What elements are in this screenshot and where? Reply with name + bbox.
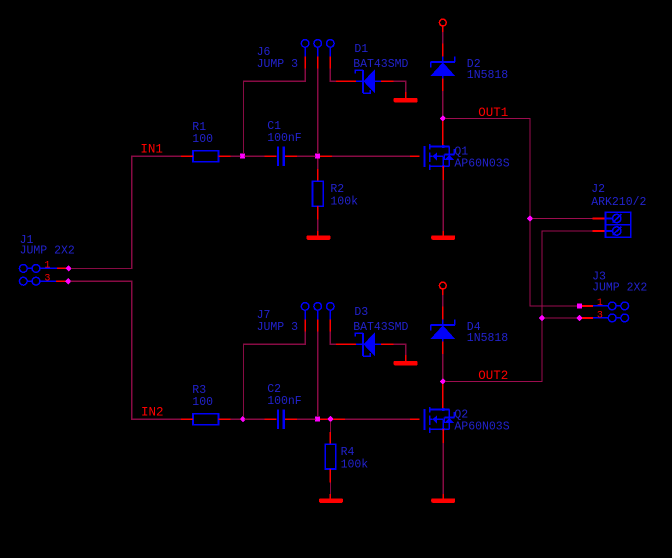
junction J1 pin 3 bbox=[65, 278, 71, 284]
junction node OUT1 bbox=[440, 115, 446, 121]
connector J3 bbox=[608, 302, 628, 322]
svg-text:100: 100 bbox=[192, 133, 213, 146]
pin stub power bbox=[442, 26, 444, 32]
pin stub Q2 gate bbox=[410, 418, 419, 420]
wire Q1 source to ground bbox=[442, 180, 444, 231]
svg-text:3: 3 bbox=[44, 273, 50, 284]
node R3-C2-J7.1 bbox=[240, 416, 246, 422]
wire C2 node to R4 node bbox=[320, 418, 328, 420]
wire C1 to node bbox=[297, 155, 315, 157]
pin stub power bbox=[442, 289, 444, 295]
pin line J7 pin 2 bbox=[317, 310, 319, 319]
svg-text:JUMP 3: JUMP 3 bbox=[257, 321, 299, 334]
wire R4 node right bbox=[333, 418, 345, 420]
svg-text:100nF: 100nF bbox=[267, 132, 302, 145]
connector J6 bbox=[301, 40, 309, 48]
svg-text:100: 100 bbox=[192, 396, 213, 409]
svg-text:J7: J7 bbox=[257, 309, 271, 322]
junction at J3 pin 3 stub bbox=[576, 315, 582, 321]
wire R4 to ground bbox=[329, 483, 331, 494]
svg-text:R4: R4 bbox=[341, 446, 355, 459]
wire D2 to node OUT1 bbox=[442, 91, 444, 116]
pin stub C2 left bbox=[264, 418, 276, 420]
wire gate net bbox=[332, 155, 410, 157]
wire C2 to node bbox=[297, 418, 315, 420]
pin stub D3 cathode bbox=[336, 343, 356, 345]
wire D3 anode to ground bbox=[394, 344, 406, 355]
wire net OUT2 to connectors bbox=[445, 231, 592, 382]
svg-text:1N5818: 1N5818 bbox=[467, 69, 509, 82]
pin line J6 pin 2 bbox=[317, 47, 319, 56]
capacitor C1 bbox=[277, 146, 279, 166]
power supply symbol above D2 bbox=[439, 19, 446, 26]
wire Q2 source to ground bbox=[442, 443, 444, 494]
ground at D1 bbox=[394, 98, 418, 103]
svg-text:1: 1 bbox=[597, 298, 603, 309]
pin line J3 pin 3 bbox=[593, 317, 608, 319]
wire D1 anode to ground bbox=[394, 81, 406, 92]
wire OUT2 to J3 pin 3 bbox=[544, 317, 577, 319]
wire J7 pin 1 down-left to node bbox=[244, 332, 306, 418]
ground at R4 bbox=[319, 498, 343, 503]
pin stub ground at D3 bbox=[405, 355, 407, 361]
wire gate net 2 bbox=[345, 418, 410, 420]
node C1-R2-J6.2-Q1 gate bbox=[315, 154, 320, 159]
wire C1 node to Q1 gate bbox=[320, 155, 332, 157]
svg-text:JUMP 2X2: JUMP 2X2 bbox=[20, 245, 75, 258]
connector J2 bbox=[605, 212, 630, 237]
pin stub ground at D1 bbox=[405, 92, 407, 98]
wire net IN1 from J1 to R1 bbox=[71, 156, 181, 268]
pin stub R4 top bbox=[329, 432, 331, 444]
svg-text:R2: R2 bbox=[330, 183, 344, 196]
svg-text:D1: D1 bbox=[354, 43, 368, 56]
pin stub R1 right bbox=[219, 155, 231, 157]
svg-text:BAT43SMD: BAT43SMD bbox=[353, 58, 408, 71]
pin stub J1 pin 3 bbox=[56, 280, 67, 282]
svg-text:1: 1 bbox=[44, 261, 50, 272]
pin stub D4 anode bbox=[442, 342, 444, 354]
wire R2 to ground bbox=[317, 220, 319, 231]
svg-text:C1: C1 bbox=[267, 120, 281, 133]
pin stub D4 cathode bbox=[442, 307, 444, 320]
pin stub J7 pin 1 bbox=[304, 320, 306, 332]
ground at Q1 bbox=[431, 235, 455, 240]
junction OUT2 at J3 pin 3 bbox=[539, 315, 545, 321]
ground at D3 bbox=[394, 361, 418, 366]
svg-text:ARK210/2: ARK210/2 bbox=[591, 196, 646, 209]
wire power to D2 bbox=[442, 32, 444, 44]
svg-text:AP60N03S: AP60N03S bbox=[454, 421, 509, 434]
pin stub ground at R2 bbox=[317, 231, 319, 236]
wire J6 pin 2 down to node bbox=[317, 69, 319, 155]
wire node to C2 bbox=[245, 418, 265, 420]
junction node OUT2 bbox=[440, 378, 446, 384]
pin stub J7 pin 3 bbox=[329, 320, 331, 332]
diode D1 bbox=[355, 69, 381, 93]
pin line J6 pin 3 bbox=[329, 47, 331, 56]
node C2-J7.2 bbox=[315, 417, 320, 422]
junction J1 pin 1 bbox=[65, 265, 71, 271]
wire node to C1 bbox=[245, 155, 265, 157]
pin line J7 pin 1 bbox=[304, 310, 306, 319]
ground at Q2 bbox=[431, 498, 455, 503]
pin stub R2 top bbox=[317, 169, 319, 181]
resistor R3 bbox=[193, 414, 219, 425]
pin stub Q1 source bbox=[442, 166, 444, 180]
wire node to R2 bbox=[317, 159, 319, 170]
pin line J7 pin 3 bbox=[329, 310, 331, 319]
node end at J3 pin 1 bbox=[577, 303, 582, 308]
pin stub D1 anode bbox=[381, 80, 393, 82]
pin stub ground at R4 bbox=[329, 494, 331, 499]
svg-text:100k: 100k bbox=[330, 196, 358, 209]
pin stub J7 pin 2 bbox=[317, 320, 319, 332]
resistor R2 bbox=[313, 181, 324, 206]
pin stub R2 bottom bbox=[317, 206, 319, 219]
pin stub Q2 source bbox=[442, 429, 444, 443]
svg-text:AP60N03S: AP60N03S bbox=[454, 158, 509, 171]
diode D4 bbox=[431, 319, 456, 341]
resistor R1 bbox=[193, 151, 219, 162]
pin stub R4 bottom bbox=[329, 469, 331, 482]
svg-text:100nF: 100nF bbox=[267, 395, 302, 408]
wire D4 to node OUT2 bbox=[442, 354, 444, 379]
pin stub C1 right bbox=[285, 155, 297, 157]
svg-text:BAT43SMD: BAT43SMD bbox=[353, 321, 408, 334]
pin stub R1 left bbox=[181, 155, 193, 157]
svg-text:3: 3 bbox=[597, 310, 603, 321]
pin stub C2 right bbox=[285, 418, 297, 420]
svg-text:D3: D3 bbox=[354, 306, 368, 319]
wire R3 to node bbox=[231, 418, 241, 420]
pin stub J3 pin 3 bbox=[582, 317, 593, 319]
pin line J1 pin 3 bbox=[40, 280, 56, 282]
pin stub J6 pin 1 bbox=[304, 57, 306, 69]
wire OUT1 to J2 pin 1 bbox=[532, 218, 592, 220]
wire J6 pin 1 down-left to node bbox=[244, 69, 306, 155]
svg-text:JUMP 2X2: JUMP 2X2 bbox=[592, 282, 647, 295]
pin stub J6 pin 2 bbox=[317, 57, 319, 69]
pin line J1 pin 1 bbox=[40, 267, 57, 269]
wire J6 pin 3 down-right to D1 bbox=[330, 69, 336, 82]
pin stub D2 anode bbox=[442, 79, 444, 91]
svg-text:JUMP 3: JUMP 3 bbox=[257, 58, 299, 71]
diode D3 bbox=[355, 332, 381, 356]
pin stub C1 left bbox=[264, 155, 276, 157]
pin stub R3 right bbox=[219, 418, 231, 420]
wire net OUT1 to connectors bbox=[445, 119, 577, 306]
wire J7 pin 2 down to node bbox=[317, 332, 319, 418]
svg-text:J6: J6 bbox=[257, 46, 271, 59]
pin stub J2 pin 2 bbox=[593, 230, 606, 232]
wire R1 to node bbox=[231, 155, 241, 157]
ground at R2 bbox=[307, 235, 331, 240]
wire node to R4 bbox=[329, 422, 331, 433]
svg-text:IN2: IN2 bbox=[141, 406, 164, 420]
connector J1 bbox=[19, 265, 39, 286]
wire net IN2 from J1 to R3 bbox=[71, 281, 181, 419]
pin stub J1 pin 1 bbox=[57, 267, 67, 269]
node R1-C1-J6.1 bbox=[240, 154, 245, 159]
capacitor C2 bbox=[277, 409, 279, 429]
pin stub D3 anode bbox=[381, 343, 393, 345]
diode D2 bbox=[431, 56, 456, 78]
resistor R4 bbox=[325, 444, 336, 469]
pin stub J3 pin 1 bbox=[582, 305, 593, 307]
wire J7 pin 3 down-right to D3 bbox=[330, 332, 336, 345]
wire power to D4 bbox=[442, 295, 444, 307]
pin line J6 pin 1 bbox=[304, 47, 306, 56]
junction OUT1 at J2 pin 1 bbox=[527, 215, 533, 221]
svg-text:1N5818: 1N5818 bbox=[467, 332, 509, 345]
pin stub Q2 drain bbox=[442, 384, 444, 410]
pin stub D2 cathode bbox=[442, 44, 444, 57]
transistor Q2 bbox=[425, 407, 455, 433]
transistor Q1 bbox=[425, 144, 455, 170]
pin stub J6 pin 3 bbox=[329, 57, 331, 69]
pin stub R3 left bbox=[181, 418, 193, 420]
node R4 junction bbox=[327, 416, 333, 422]
pin stub ground at Q1 bbox=[442, 231, 444, 235]
power supply symbol above D4 bbox=[439, 282, 446, 289]
svg-text:OUT1: OUT1 bbox=[478, 106, 508, 120]
pin stub Q1 drain bbox=[442, 121, 444, 147]
svg-text:J2: J2 bbox=[591, 183, 605, 196]
pin stub J2 pin 1 bbox=[593, 218, 606, 220]
pin stub ground at Q2 bbox=[442, 494, 444, 498]
svg-text:IN1: IN1 bbox=[140, 142, 163, 156]
svg-text:OUT2: OUT2 bbox=[478, 369, 508, 383]
connector J7 bbox=[301, 303, 309, 311]
pin line J3 pin 1 bbox=[593, 305, 608, 307]
svg-text:C2: C2 bbox=[267, 383, 281, 396]
pin stub D1 cathode bbox=[336, 80, 356, 82]
svg-text:100k: 100k bbox=[341, 459, 369, 472]
pin stub Q1 gate bbox=[410, 155, 419, 157]
